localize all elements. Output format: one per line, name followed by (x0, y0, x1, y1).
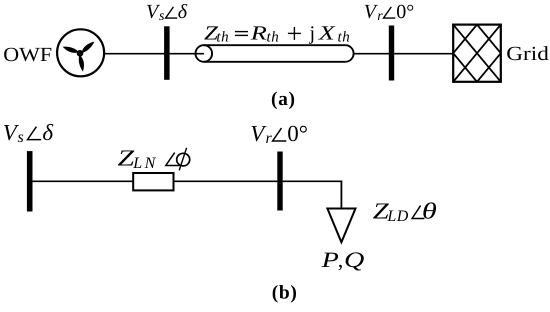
wire transmission line to bus Vr (354, 53, 389, 55)
bus bar Vs (164, 26, 170, 80)
svg-text:OWF: OWF (3, 44, 52, 66)
svg-text:(b): (b) (272, 283, 298, 304)
bus bar Vr (b) (277, 152, 282, 211)
line impedance ZLN (box) (133, 173, 173, 190)
wire bus Vs to transmission line (170, 53, 204, 55)
wire bus Vs to line impedance (33, 180, 134, 182)
node label Vs angle delta (146, 1, 188, 24)
svg-text:r: r (377, 9, 383, 24)
svg-text:th: th (267, 29, 280, 45)
svg-text:0°: 0° (396, 1, 414, 23)
wire corner down to load (340, 181, 342, 209)
label P, Q (320, 247, 364, 272)
svg-text:Grid: Grid (506, 43, 549, 65)
wind turbine generator G (57, 29, 104, 76)
svg-text:X: X (317, 22, 335, 44)
grid equivalent network (453, 25, 501, 82)
wire line impedance to bus Vr (174, 180, 278, 182)
svg-text:th: th (216, 29, 229, 45)
value label Zth = Rth + jXth (204, 22, 350, 45)
svg-text:s: s (18, 129, 24, 146)
node label Vr angle 0 deg (364, 1, 415, 24)
node label Vr angle 0 deg (b) (250, 121, 308, 147)
svg-text:0°: 0° (287, 121, 308, 146)
svg-text:δ: δ (178, 1, 188, 23)
load ZLD (triangle) (327, 209, 355, 243)
svg-text:r: r (266, 130, 273, 147)
wire bus Vr to corner (283, 180, 343, 182)
node label Vs angle delta (b) (3, 120, 54, 146)
svg-text:P: P (320, 247, 339, 272)
svg-text:D: D (396, 208, 409, 225)
svg-text:R: R (249, 22, 266, 44)
svg-text:Z: Z (118, 146, 135, 171)
svg-text:s: s (159, 9, 165, 24)
svg-text:th: th (338, 29, 351, 45)
bus bar Vs (b) (27, 151, 33, 211)
svg-text:Q: Q (344, 247, 364, 272)
wire bus Vr to grid (394, 53, 453, 55)
svg-text:N: N (144, 155, 157, 172)
value label ZLD angle theta (373, 199, 437, 225)
value label ZLN angle phi (118, 146, 190, 172)
bus bar Vr (389, 26, 394, 81)
svg-text:,: , (338, 247, 344, 272)
svg-text:(a): (a) (271, 89, 296, 110)
transmission line Zth (cylinder) (196, 45, 354, 62)
svg-text:L: L (132, 155, 142, 172)
svg-text:δ: δ (42, 120, 53, 145)
svg-text:θ: θ (422, 199, 437, 224)
wire turbine to bus Vs (104, 53, 165, 55)
svg-text:j: j (309, 22, 316, 44)
svg-text:L: L (386, 208, 396, 225)
